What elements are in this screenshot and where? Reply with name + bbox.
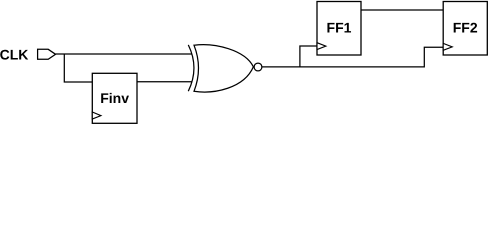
svg-text:Finv: Finv [100,90,129,106]
svg-text:CLK: CLK [0,46,28,62]
svg-text:FF1: FF1 [327,19,352,35]
svg-text:FF2: FF2 [453,19,478,35]
